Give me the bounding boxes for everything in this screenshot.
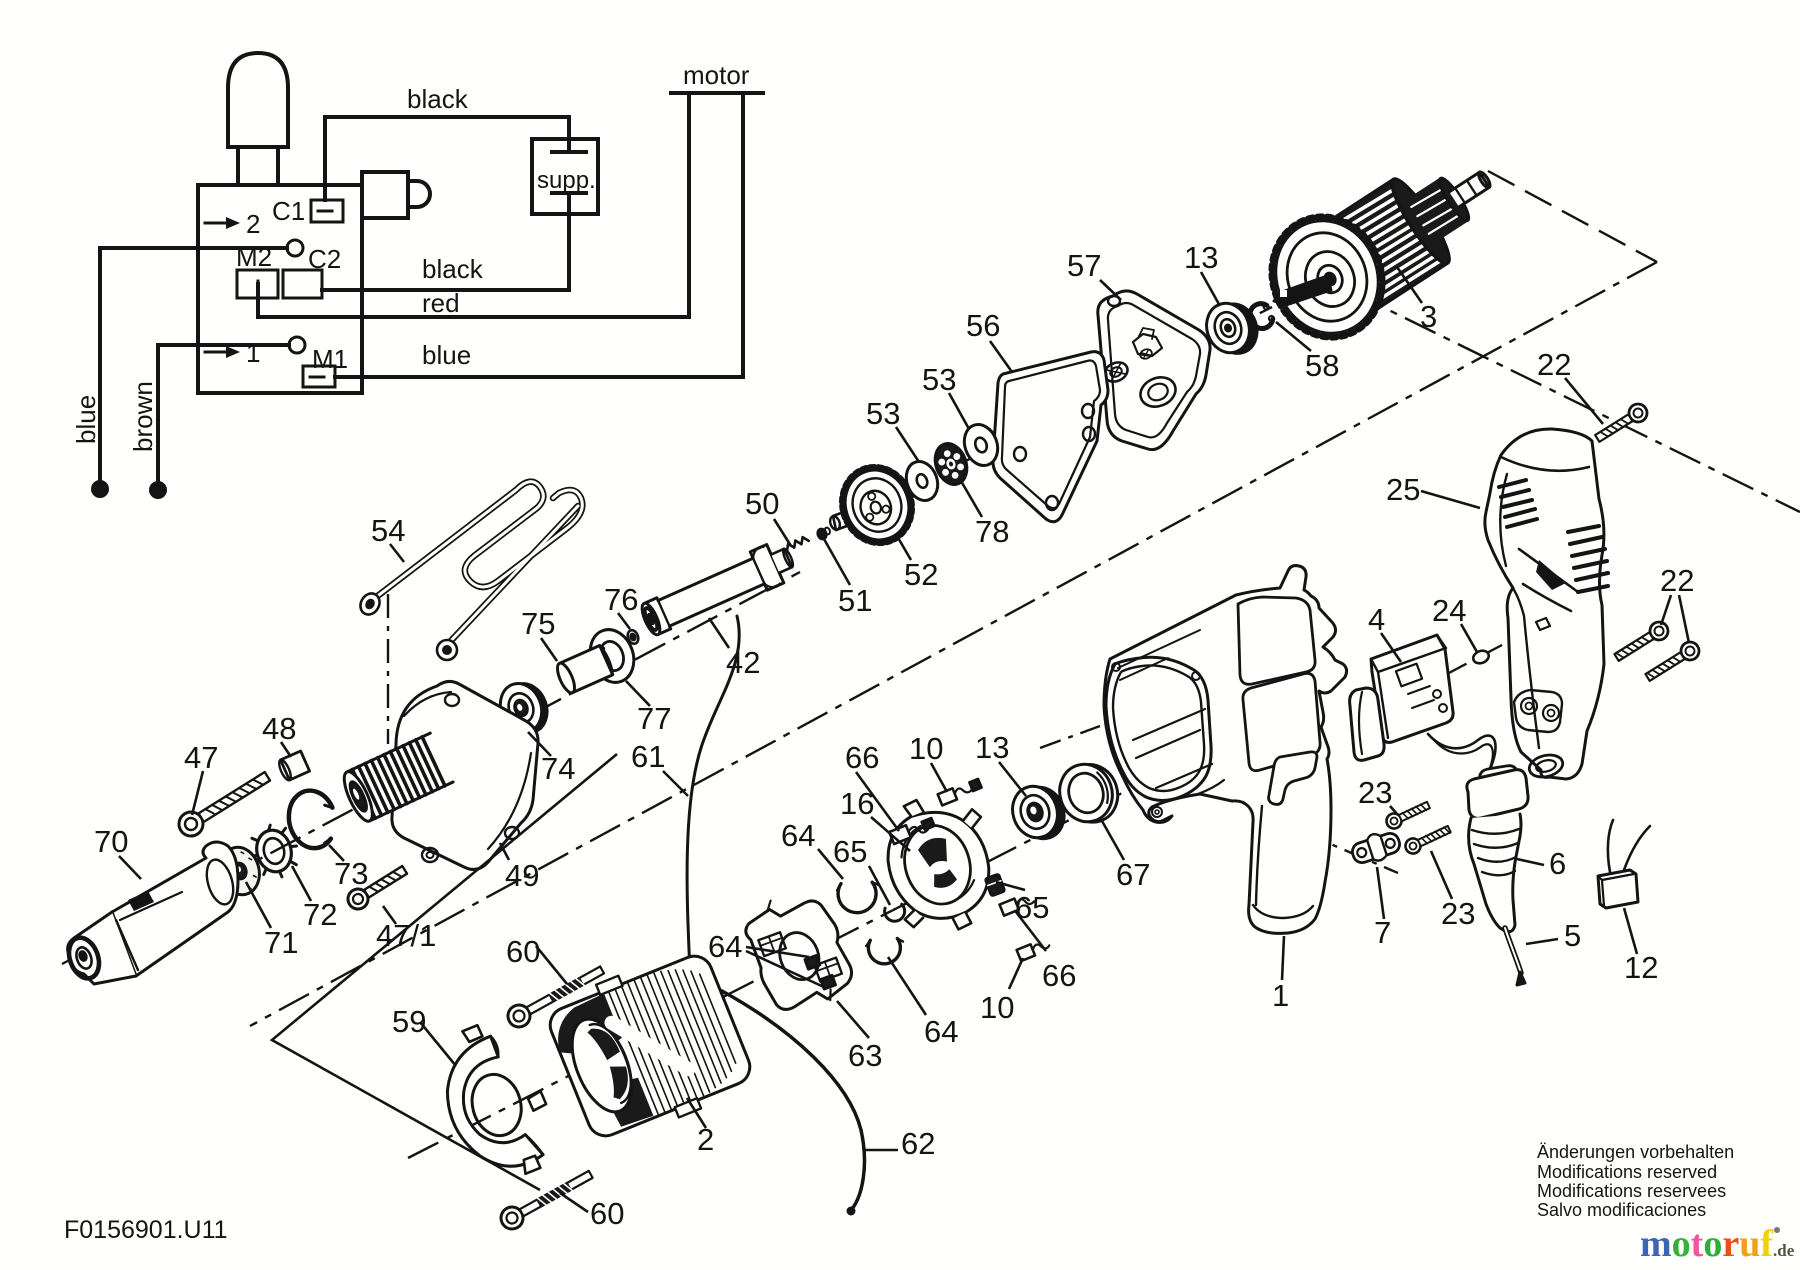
wire blue M1 to motor (335, 94, 743, 377)
svg-text:56: 56 (966, 308, 1000, 343)
leader 10 a (931, 763, 947, 792)
svg-text:Modifications reserved: Modifications reserved (1537, 1162, 1717, 1182)
svg-text:Salvo modificaciones: Salvo modificaciones (1537, 1200, 1706, 1220)
cord clamp 7 (1349, 827, 1403, 868)
screw 60 upper (504, 960, 607, 1031)
housing 49 threaded collar (339, 733, 453, 825)
wire black C1 to suppressor (325, 117, 569, 200)
switch plunger button (228, 53, 288, 147)
bearing 74 (494, 676, 554, 740)
leader 2 (687, 1098, 706, 1128)
svg-text:72: 72 (303, 897, 337, 932)
armature left shaft (1274, 276, 1331, 305)
screw 47 (174, 766, 273, 840)
handle 25 screw bosses (1514, 690, 1562, 732)
leader 61 (663, 771, 688, 796)
brush clip 65 right (985, 874, 1004, 896)
svg-text:77: 77 (637, 701, 671, 736)
handle 25 vents left (1499, 480, 1537, 527)
leader 5 (1526, 939, 1558, 944)
plate 57 bracket (1133, 334, 1162, 356)
leader 13 top (1201, 272, 1220, 306)
leader 52 (897, 536, 911, 560)
wire brown supply to switch (158, 345, 289, 484)
leader 56 (990, 341, 1012, 372)
svg-text:1: 1 (246, 338, 260, 368)
leader 66 a (856, 772, 899, 831)
housing 1 side window (1243, 673, 1320, 770)
svg-text:22: 22 (1537, 347, 1571, 382)
svg-text:25: 25 (1386, 472, 1420, 507)
gasket 56 (993, 352, 1108, 522)
leader 62 (865, 1149, 898, 1152)
handle 25 small clip (1536, 618, 1550, 630)
housing 1 grip inner lines (1253, 806, 1313, 918)
stator cover 59 (430, 1013, 562, 1188)
leader 67 (1102, 821, 1124, 860)
retainer ring 67 (1052, 756, 1125, 831)
leader 49 (500, 843, 509, 860)
switch axis dash (1447, 645, 1502, 674)
brush ring 16 (871, 783, 1012, 944)
group bracket 59/2/60 (272, 754, 617, 1190)
depth stop clip 54 (357, 482, 583, 660)
leader 76 (618, 613, 630, 629)
screw 23 lower (1403, 822, 1452, 856)
leader 13 b (999, 762, 1026, 796)
svg-text:48: 48 (262, 711, 296, 746)
leader 22 right (1661, 595, 1671, 625)
plate 57 gear boss (1136, 372, 1180, 411)
svg-text:59: 59 (392, 1004, 426, 1039)
svg-text:70: 70 (94, 824, 128, 859)
leader 64 a (818, 849, 843, 879)
svg-text:5: 5 (1564, 918, 1581, 953)
svg-text:3: 3 (1420, 299, 1437, 334)
leader 64 b lower (746, 951, 826, 988)
main centerline L1 (250, 262, 1657, 1026)
field coil 2 (541, 942, 758, 1149)
svg-text:Änderungen vorbehalten: Änderungen vorbehalten (1537, 1142, 1734, 1162)
svg-text:red: red (422, 288, 460, 318)
svg-text:Modifications reservees: Modifications reservees (1537, 1181, 1726, 1201)
svg-text:58: 58 (1305, 348, 1339, 383)
washer 53 left (901, 457, 943, 505)
svg-text:61: 61 (631, 739, 665, 774)
clip 54 hanger dash (387, 594, 389, 744)
svg-text:black: black (422, 254, 484, 284)
svg-text:63: 63 (848, 1038, 882, 1073)
housing 1 bore ribs (1133, 709, 1212, 788)
grip axis dash (1305, 833, 1398, 873)
terminal C1 pad (311, 200, 343, 222)
leader 70 (119, 856, 141, 879)
svg-text:62: 62 (901, 1126, 935, 1161)
dashed box corner at armature tip (1488, 171, 1657, 262)
pin 24 (1471, 648, 1490, 665)
leader 72 (292, 866, 311, 901)
svg-text:supp.: supp. (537, 167, 596, 194)
svg-text:motoruf.de: motoruf.de (1640, 1223, 1795, 1265)
terminal circle near 1 (289, 337, 305, 353)
svg-text:4: 4 (1368, 602, 1385, 637)
leader 7 (1377, 867, 1384, 919)
leader 64 b upper (746, 947, 809, 957)
switch 4 (1350, 635, 1496, 798)
svg-text:M1: M1 (312, 344, 348, 374)
star washer 72 (245, 820, 303, 883)
svg-text:42: 42 (726, 645, 760, 680)
spring 50 (784, 535, 808, 551)
retaining ring 58 (1246, 300, 1276, 331)
washer 53 right (959, 420, 1003, 470)
field wire 62 (722, 991, 864, 1209)
leader 58 (1276, 322, 1311, 351)
svg-text:78: 78 (975, 514, 1009, 549)
spindle 42 (637, 537, 800, 641)
svg-text:71: 71 (264, 925, 298, 960)
brush clip 65 left (883, 902, 907, 924)
cone 70 face (202, 857, 238, 908)
leader 47/1 (383, 906, 396, 924)
bearing 13 top (1200, 296, 1263, 362)
leader 6 (1517, 859, 1544, 865)
svg-text:brown: brown (128, 381, 158, 452)
handle 25 vents right (1568, 526, 1608, 592)
svg-text:50: 50 (745, 486, 779, 521)
leader 4 (1381, 633, 1401, 662)
switch body (198, 185, 362, 393)
svg-text:53: 53 (866, 396, 900, 431)
commutator (1406, 178, 1468, 243)
svg-text:23: 23 (1358, 775, 1392, 810)
housing 1 bore opening (1106, 657, 1211, 800)
switch 4 trigger (1350, 688, 1385, 760)
pin 51 (817, 526, 832, 540)
svg-text:74: 74 (541, 751, 575, 786)
armature shaft tip (1449, 172, 1489, 207)
strain relief 6 (1467, 766, 1528, 985)
terminal M2 contact box (237, 270, 278, 298)
svg-text:60: 60 (506, 934, 540, 969)
washer 71 (215, 843, 264, 899)
leader 22 top (1565, 378, 1603, 424)
switch plunger stem (238, 147, 278, 185)
motor underline (671, 91, 763, 95)
svg-text:7: 7 (1374, 915, 1391, 950)
plate 57 bearing boss (1101, 359, 1130, 385)
svg-text:76: 76 (604, 582, 638, 617)
pin 76 (626, 629, 640, 646)
svg-text:52: 52 (904, 557, 938, 592)
wire blue supply to switch (100, 248, 287, 484)
screw 47/1 (344, 861, 410, 912)
leader 24 (1461, 624, 1477, 652)
leader 53 right (949, 393, 969, 429)
leader 25 (1421, 491, 1480, 508)
gear housing 49 (339, 681, 538, 869)
screw 22 pair upper (1612, 619, 1672, 666)
svg-text:13: 13 (975, 730, 1009, 765)
handle housing 25 (1485, 429, 1608, 780)
svg-text:57: 57 (1067, 248, 1101, 283)
screw 22 pair lower (1643, 639, 1703, 686)
nose cone 70 (64, 842, 238, 984)
leader 1 (1282, 936, 1284, 980)
brown wire end dot (151, 483, 165, 497)
leader 65 a (869, 866, 890, 905)
leader 66 b (1016, 912, 1046, 951)
screw 22 top (1593, 401, 1651, 446)
svg-text:64: 64 (924, 1014, 958, 1049)
cone 70 tip bearing (64, 933, 105, 982)
armature fan gear (1254, 200, 1400, 354)
switch side connector tab (408, 181, 430, 207)
retaining clip 73 (284, 786, 340, 852)
svg-text:73: 73 (334, 856, 368, 891)
leader 78 (961, 481, 982, 517)
wire red M2 to motor (258, 94, 689, 317)
armature axis L3 (1352, 292, 1800, 512)
leader 65 b (996, 882, 1025, 890)
svg-text:49: 49 (505, 858, 539, 893)
capacitor 12 (1598, 820, 1650, 908)
leader 48 (281, 742, 291, 757)
svg-text:65: 65 (1015, 890, 1049, 925)
svg-text:2: 2 (246, 209, 260, 239)
svg-text:blue: blue (422, 340, 471, 370)
svg-text:60: 60 (590, 1196, 624, 1231)
cord 5 (1505, 928, 1521, 973)
bearing 13 lower (1006, 779, 1071, 847)
leader 10 b (1009, 958, 1023, 989)
arrow 1 (205, 351, 228, 354)
svg-text:54: 54 (371, 513, 405, 548)
leader 77 (626, 681, 650, 706)
handle 25 bottom opening (1527, 752, 1565, 781)
leader 47 (192, 771, 203, 815)
leader 42 (709, 618, 729, 648)
leader 60 b (560, 1193, 588, 1212)
svg-text:10: 10 (980, 990, 1014, 1025)
leader 12 (1624, 908, 1637, 954)
housing 1 upper window (1238, 597, 1315, 684)
svg-text:24: 24 (1432, 593, 1466, 628)
svg-text:M2: M2 (236, 242, 272, 272)
leader 54 (390, 544, 404, 562)
leader 23 a (1390, 806, 1398, 815)
svg-text:51: 51 (838, 583, 872, 618)
motor housing 1 (1104, 566, 1347, 934)
svg-text:23: 23 (1441, 896, 1475, 931)
suppressor box (532, 139, 598, 214)
spindle row axis L2 (62, 572, 800, 964)
svg-text:13: 13 (1184, 240, 1218, 275)
handle 25 mid band (1519, 549, 1578, 611)
gear 52 shaft stub (833, 506, 863, 530)
brush holder 63 (738, 883, 859, 1020)
leader 57 (1100, 280, 1121, 300)
terminal C2 contact box (283, 270, 322, 298)
arrow 2 (205, 222, 228, 225)
svg-text:F0156901.U11: F0156901.U11 (64, 1216, 228, 1244)
brush lead 64 targets (805, 953, 835, 992)
switch 4 wire to boot (1428, 734, 1496, 798)
leader 74 (528, 732, 551, 756)
brush assembly 10 lower (1017, 938, 1051, 961)
svg-text:64: 64 (708, 929, 742, 964)
svg-text:C2: C2 (308, 244, 341, 274)
brush spring 64 upper (836, 877, 883, 916)
terminal circle near 2 (287, 240, 303, 256)
leader 23 b (1431, 851, 1452, 899)
terminal M1 pad (303, 366, 335, 387)
gear 52 (828, 458, 922, 553)
blue wire end dot (93, 482, 107, 496)
screw 23 upper (1384, 798, 1432, 831)
svg-text:blue: blue (71, 395, 101, 444)
leader 71 (246, 882, 271, 928)
leader 63 (837, 1001, 869, 1038)
spacer bushing 48 (277, 751, 310, 782)
leader 75 (541, 638, 557, 661)
carbon brush 66 lower (1000, 892, 1035, 915)
svg-text:12: 12 (1624, 950, 1658, 985)
brush spring 64 lower (865, 935, 906, 967)
svg-text:65: 65 (833, 834, 867, 869)
svg-text:64: 64 (781, 818, 815, 853)
svg-text:66: 66 (1042, 958, 1076, 993)
handle 25 inner edge (1513, 588, 1539, 748)
capacitor plates inside suppressor (552, 139, 586, 214)
field wire 61 (668, 616, 739, 1006)
cone 70 key (128, 891, 154, 911)
leader 50 (774, 519, 791, 546)
svg-text:motor: motor (683, 60, 750, 90)
bearing to housing dash (1040, 726, 1100, 748)
carbon brush 66 upper (889, 816, 935, 845)
gear row axis (838, 307, 1272, 525)
svg-text:C1: C1 (272, 196, 305, 226)
svg-text:6: 6 (1549, 846, 1566, 881)
spider washer 78 (930, 439, 973, 489)
leader 53 left (896, 427, 919, 462)
armature 3 (1254, 136, 1514, 354)
thrust washer 77 (583, 623, 641, 688)
leader 59 (420, 1022, 456, 1066)
bearing sleeve 75 (554, 644, 615, 695)
housing 1 trigger spur (1269, 752, 1317, 805)
leader 3 (1397, 267, 1422, 303)
bearing plate 57 (1098, 291, 1210, 450)
svg-text:66: 66 (845, 740, 879, 775)
svg-text:black: black (407, 84, 469, 114)
svg-text:67: 67 (1116, 857, 1150, 892)
leader 73 (329, 845, 344, 861)
svg-text:1: 1 (1272, 978, 1289, 1013)
brush assembly 10 upper (938, 778, 982, 805)
svg-text:53: 53 (922, 362, 956, 397)
wire black C2 to suppressor bottom (322, 214, 569, 290)
svg-text:47: 47 (184, 740, 218, 775)
svg-text:75: 75 (521, 606, 555, 641)
switch side connector (362, 172, 408, 218)
svg-text:22: 22 (1660, 563, 1694, 598)
leader 51 (824, 539, 850, 585)
leader 16 (871, 817, 910, 851)
rotor laminations (1313, 179, 1448, 315)
svg-text:10: 10 (909, 731, 943, 766)
screw 60 lower (497, 1165, 596, 1233)
leader 64 c (888, 957, 926, 1015)
field row axis L4 (408, 789, 1130, 1158)
leader 60 a (536, 946, 567, 984)
